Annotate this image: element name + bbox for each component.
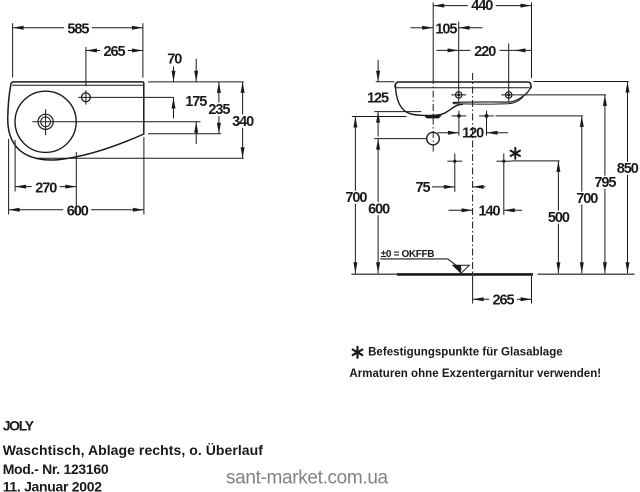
svg-text:75: 75 — [416, 180, 431, 196]
OKFFB underline — [380, 258, 448, 260]
note asterisk — [353, 347, 363, 358]
dimension 270 — [15, 180, 76, 196]
plan view inner rim line — [12, 84, 143, 86]
dimension 850 — [617, 82, 639, 274]
svg-text:700: 700 — [345, 190, 367, 206]
left glass fixing point — [447, 153, 462, 191]
svg-text:JOLY: JOLY — [3, 417, 35, 433]
fixing hole ref line right — [496, 115, 583, 117]
svg-text:795: 795 — [594, 175, 616, 191]
front view drain boss — [425, 116, 441, 118]
plan 340 reference line — [36, 157, 244, 159]
siphon reference line — [374, 138, 426, 140]
svg-text:600: 600 — [67, 203, 89, 219]
top edge ref line right — [534, 81, 629, 83]
left fixing hole — [452, 111, 467, 136]
dimension 120 — [438, 126, 509, 142]
265 right extension line — [531, 276, 533, 304]
dimension 600 left — [368, 139, 390, 274]
right edge extension line — [531, 3, 533, 79]
plan view basin outline — [8, 82, 144, 160]
svg-text:125: 125 — [367, 90, 389, 106]
dimension 125 text — [367, 90, 389, 106]
svg-text:120: 120 — [462, 126, 484, 142]
dimension 105 — [411, 22, 483, 38]
front view shelf underside upper line — [453, 88, 531, 103]
125 lower ref line — [374, 111, 421, 113]
plan tap hole crosshair vertical — [85, 90, 87, 104]
right glass fixing point — [496, 153, 511, 214]
svg-text:Armaturen ohne Exzentergarnitu: Armaturen ohne Exzentergarnitur verwende… — [349, 368, 601, 380]
dimension 795 — [594, 95, 616, 273]
dimension 270 extension line left — [14, 140, 16, 192]
plan drain crosshair vertical — [45, 109, 47, 135]
dimension 175 upper arrow — [194, 59, 198, 82]
dimension 235 — [208, 82, 230, 134]
svg-text:235: 235 — [208, 102, 230, 118]
floor line — [351, 273, 634, 275]
svg-text:265: 265 — [104, 44, 126, 60]
dimension 220 — [437, 44, 532, 60]
svg-text:585: 585 — [67, 22, 89, 38]
plan view drain hole inner circle — [41, 117, 51, 127]
floor level symbol — [453, 265, 469, 273]
plan tap hole circle — [82, 93, 91, 102]
fixing holes centreline — [472, 73, 474, 304]
svg-text:340: 340 — [232, 114, 254, 130]
watermark — [226, 467, 389, 488]
dimension 600 extension line right — [143, 137, 145, 215]
dimension 585 — [13, 22, 143, 38]
plan bowl centre reference line — [32, 121, 200, 123]
plan 235 reference line — [148, 133, 221, 135]
svg-text:440: 440 — [471, 0, 493, 14]
dimension 340 — [232, 82, 254, 158]
svg-text:105: 105 — [435, 22, 457, 38]
dimension 600 extension line left — [8, 139, 10, 215]
front view rim bottom line — [396, 87, 530, 89]
dimension 600 plan — [9, 203, 144, 219]
footer number line — [3, 461, 109, 477]
plan view bowl circle — [15, 91, 76, 152]
dimension 270 extension line right — [75, 152, 77, 214]
siphon outlet circle — [427, 132, 440, 145]
svg-text:175: 175 — [185, 94, 207, 110]
svg-text:70: 70 — [167, 51, 182, 67]
dimension 125 lower arrow — [376, 112, 380, 137]
svg-text:220: 220 — [474, 44, 496, 60]
front view bowl underside — [395, 86, 463, 116]
front view top rim — [395, 82, 531, 89]
dimension 70 text — [167, 51, 182, 67]
svg-text:11. Januar 2002: 11. Januar 2002 — [3, 479, 103, 492]
dimension 700 right — [576, 116, 598, 273]
svg-text:270: 270 — [35, 180, 57, 196]
asterisk marker — [511, 148, 520, 159]
right tap hole extension line — [508, 44, 510, 103]
svg-text:140: 140 — [479, 203, 501, 219]
dimension 265 plan — [86, 44, 143, 60]
dimension 700 left — [345, 117, 367, 274]
dimension 265 bottom — [473, 293, 532, 309]
plan view drain hole outer circle — [38, 114, 53, 129]
dimension 440 — [433, 0, 531, 14]
tap hole ref line right — [516, 94, 606, 96]
svg-text:700: 700 — [576, 191, 598, 207]
dimension 500 — [548, 161, 570, 273]
top edge ref line left — [376, 81, 395, 83]
footer model line — [3, 442, 264, 458]
svg-text:850: 850 — [617, 161, 639, 177]
left tap hole extension line — [458, 22, 460, 103]
svg-text:265: 265 — [493, 293, 515, 309]
dimension 70 lower arrow — [172, 98, 176, 119]
dimension 585 extension line left — [12, 23, 14, 77]
svg-text:Mod.- Nr. 123160: Mod.- Nr. 123160 — [3, 461, 109, 477]
plan tap hole reference line — [78, 96, 173, 98]
OKFFB leader diagonal — [448, 259, 462, 270]
note line 1 — [368, 347, 563, 359]
dimension 265 extension line left at tap hole — [85, 47, 87, 86]
dimension 175 lower arrow — [194, 122, 198, 144]
note line 2 — [349, 368, 601, 380]
svg-text:Befestigungspunkte für Glasabl: Befestigungspunkte für Glasablage — [368, 347, 563, 359]
svg-text:500: 500 — [548, 210, 570, 226]
svg-text:sant-market.com.ua: sant-market.com.ua — [226, 467, 389, 488]
dimension 75 — [416, 180, 486, 196]
right fixing hole — [479, 111, 494, 136]
basin bottom ref line left — [352, 116, 407, 118]
dimension 585 extension line right — [142, 23, 144, 77]
footer date line — [3, 479, 103, 492]
dimension 175 text — [185, 94, 207, 110]
bowl centreline — [432, 3, 434, 154]
dimension 125 upper arrow — [376, 60, 380, 82]
svg-text:Waschtisch, Ablage rechts, o.: Waschtisch, Ablage rechts, o. Überlauf — [3, 442, 264, 458]
left tap hole front — [451, 92, 466, 98]
right tap hole front — [501, 92, 516, 98]
front view shelf underside lower line — [453, 96, 524, 104]
svg-text:600: 600 — [368, 201, 390, 217]
dimension 140 — [449, 203, 523, 219]
footer JOLY — [3, 417, 35, 433]
OKFFB label — [381, 249, 435, 260]
glass fixing ref line right — [511, 160, 559, 162]
dimension 70 upper arrow — [172, 67, 176, 82]
plan top edge reference line right — [148, 81, 244, 83]
